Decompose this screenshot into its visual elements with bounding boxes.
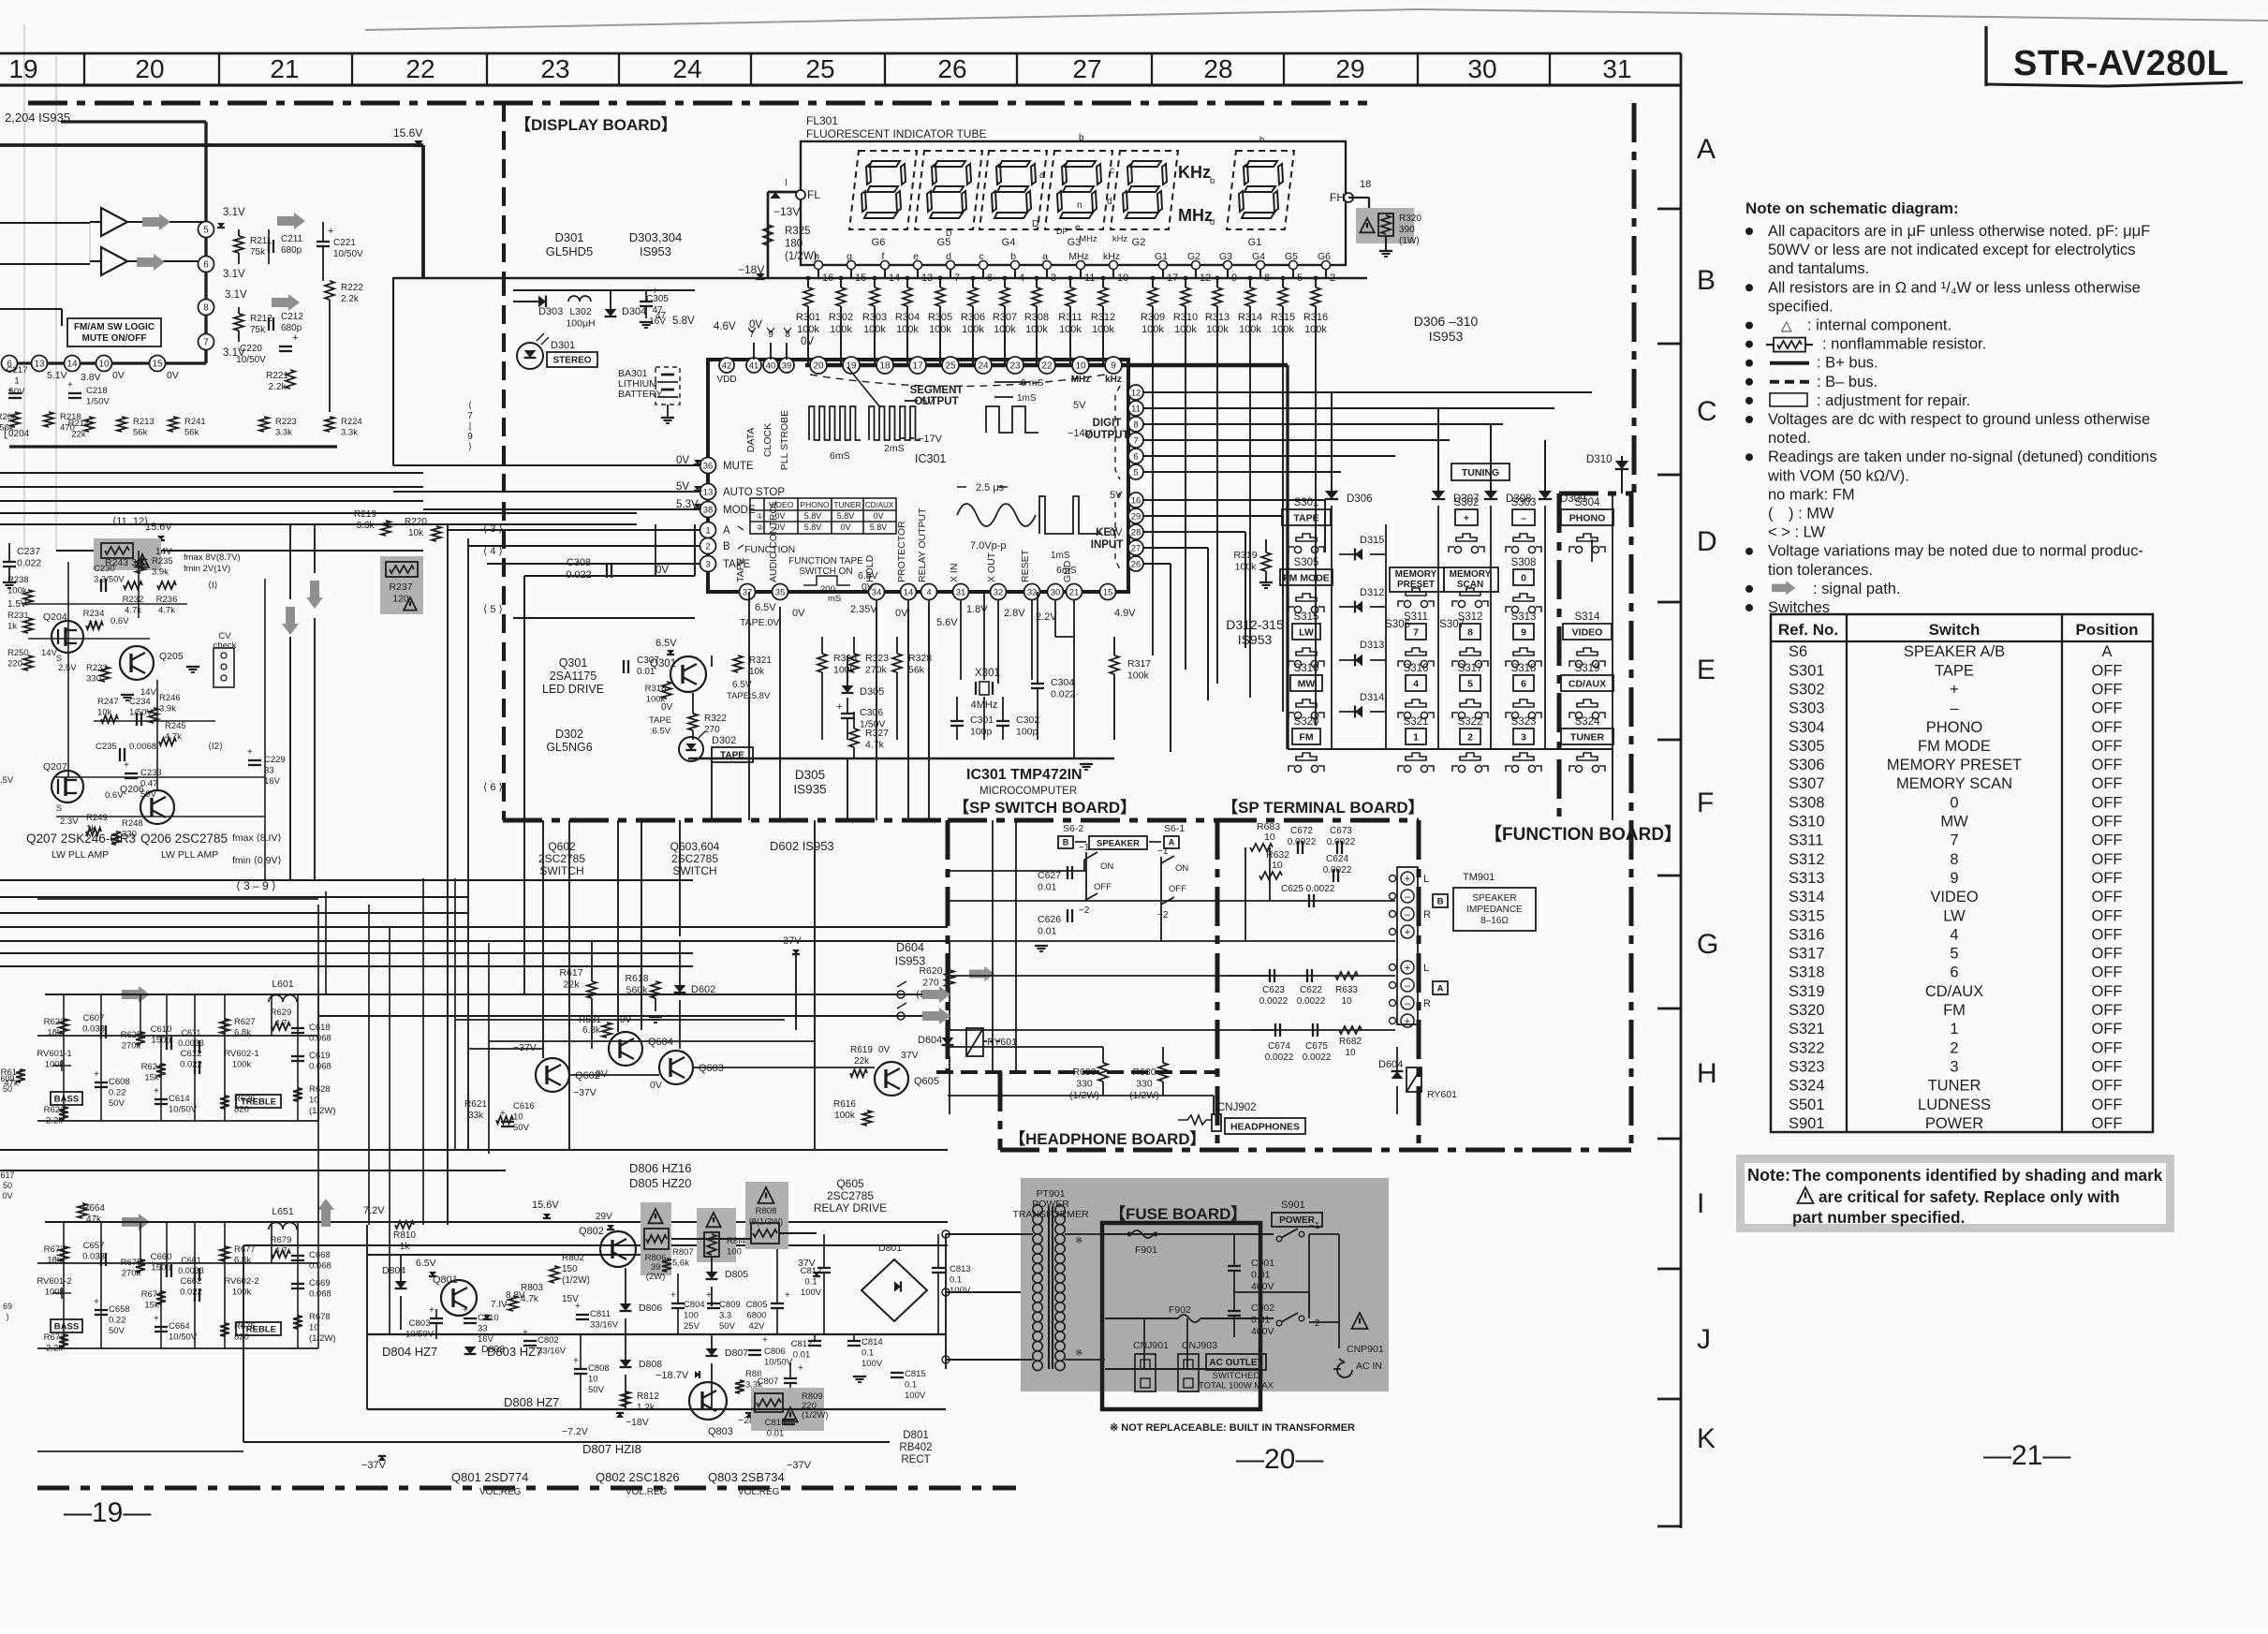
- capacitor C234: [129, 697, 153, 726]
- display tube FL301 box: [801, 141, 1346, 265]
- svg-text:I: I: [1697, 1188, 1704, 1219]
- svg-text:S308: S308: [1511, 557, 1537, 568]
- svg-text:AC OUTLET: AC OUTLET: [1209, 1358, 1262, 1368]
- resistor R250: [7, 648, 157, 700]
- svg-text:fmin ⟨0.9V⟩: fmin ⟨0.9V⟩: [232, 855, 282, 866]
- node label -18.7V: [655, 1370, 700, 1381]
- svg-text:12: 12: [1131, 388, 1141, 398]
- svg-text:0.01: 0.01: [767, 1429, 785, 1439]
- capacitor C806: [748, 1335, 793, 1368]
- node label MHz: [1178, 206, 1213, 225]
- svg-text:9: 9: [1521, 626, 1526, 638]
- svg-text:D301: D301: [554, 230, 583, 244]
- svg-text:MICROCOMPUTER: MICROCOMPUTER: [979, 786, 1077, 797]
- svg-text:10/50V: 10/50V: [169, 1105, 198, 1115]
- svg-text:27: 27: [1072, 54, 1101, 83]
- node label function board: [1484, 823, 1682, 845]
- svg-text:18: 18: [1360, 179, 1371, 190]
- svg-text:OFF: OFF: [2092, 757, 2123, 773]
- capacitor C218: [67, 380, 110, 407]
- svg-text:C658: C658: [109, 1304, 130, 1315]
- svg-text:23: 23: [1009, 361, 1021, 372]
- svg-text:D303: D303: [538, 306, 563, 317]
- svg-text:D801: D801: [903, 1430, 929, 1441]
- capacitor C623: [1259, 969, 1289, 1007]
- capacitor C812: [801, 1234, 831, 1334]
- switch S311: [1398, 611, 1434, 668]
- svg-text:0.1: 0.1: [950, 1275, 962, 1286]
- svg-text:+: +: [463, 1305, 468, 1316]
- resistor R211: [234, 229, 272, 264]
- svg-text:S321: S321: [1404, 716, 1429, 728]
- switch S304: [1561, 497, 1613, 553]
- svg-text:D306 –310: D306 –310: [1414, 314, 1479, 329]
- capacitor C817: [791, 1334, 821, 1361]
- svg-text:19: 19: [846, 361, 857, 372]
- svg-text:5: 5: [1467, 678, 1473, 689]
- svg-text:220: 220: [7, 659, 22, 670]
- svg-text:GL5NG6: GL5NG6: [546, 741, 592, 754]
- svg-text:FH: FH: [1330, 191, 1345, 204]
- svg-text:C230: C230: [94, 564, 115, 574]
- switch S306: [1385, 588, 1434, 630]
- svg-text:13: 13: [703, 487, 714, 497]
- capacitor C808: [573, 1334, 610, 1409]
- svg-text:S305: S305: [1294, 557, 1319, 568]
- svg-text:fmin 2V(1V): fmin 2V(1V): [184, 564, 230, 574]
- svg-text:L: L: [1423, 874, 1429, 885]
- svg-text:Q602: Q602: [548, 840, 576, 853]
- svg-text:R624: R624: [141, 1062, 163, 1072]
- svg-text:C805: C805: [746, 1300, 768, 1310]
- svg-text:100V: 100V: [801, 1288, 822, 1298]
- svg-text:OFF: OFF: [2092, 814, 2123, 831]
- svg-text:10: 10: [309, 1323, 319, 1333]
- svg-text:5,6k: 5,6k: [672, 1259, 689, 1269]
- svg-text:CNP901: CNP901: [1347, 1344, 1384, 1355]
- svg-text:−37V: −37V: [361, 1460, 387, 1471]
- svg-text:R8II: R8II: [745, 1369, 761, 1379]
- resistor R630: [1129, 1047, 1168, 1101]
- svg-text:50V: 50V: [719, 1321, 736, 1332]
- diode D304: [605, 290, 647, 317]
- svg-text:1k: 1k: [400, 1242, 411, 1252]
- svg-text:S305: S305: [1789, 738, 1825, 755]
- svg-text:R623: R623: [44, 1017, 66, 1027]
- svg-text:FL: FL: [807, 188, 820, 201]
- capacitor C805: [746, 1249, 790, 1334]
- svg-text:VDD: VDD: [716, 375, 736, 385]
- svg-text:+: +: [785, 1290, 790, 1301]
- svg-text:D315: D315: [1360, 535, 1384, 546]
- svg-text:D: D: [946, 228, 952, 238]
- svg-text:RV601-1: RV601-1: [37, 1049, 71, 1059]
- svg-text:C804: C804: [684, 1300, 705, 1310]
- node label 11 chevron: [208, 581, 218, 591]
- svg-text:–: –: [1405, 980, 1411, 992]
- svg-text:C812: C812: [801, 1266, 822, 1276]
- svg-text:0.1: 0.1: [804, 1277, 817, 1288]
- svg-text:S312: S312: [1458, 611, 1483, 623]
- svg-text:820: 820: [234, 1105, 249, 1115]
- capacitor C809: [706, 1290, 741, 1332]
- svg-text:6.5V: 6.5V: [755, 602, 776, 613]
- svg-text:41: 41: [749, 361, 759, 371]
- svg-text:R247: R247: [97, 697, 119, 707]
- capacitor C301: [950, 697, 994, 740]
- svg-text:9: 9: [1111, 361, 1116, 372]
- svg-text:−2: −2: [1157, 910, 1169, 920]
- svg-text:28: 28: [1131, 527, 1141, 537]
- svg-text:50V: 50V: [109, 1098, 125, 1109]
- svg-text:C623: C623: [1262, 985, 1285, 995]
- svg-text:C235: C235: [96, 742, 117, 752]
- svg-text:R313: R313: [1205, 312, 1230, 323]
- signal arrow up: [317, 1199, 334, 1227]
- svg-text:Q802: Q802: [579, 1226, 604, 1237]
- svg-text:C660: C660: [151, 1252, 172, 1262]
- svg-text:50: 50: [3, 1181, 12, 1190]
- node label fmax2: [232, 832, 282, 866]
- svg-text:1/50V: 1/50V: [86, 397, 110, 407]
- svg-text:TUNER: TUNER: [833, 500, 861, 509]
- svg-text:2.8V: 2.8V: [1004, 608, 1025, 619]
- svg-text:kHz: kHz: [1103, 251, 1120, 262]
- svg-text:Position: Position: [2075, 621, 2138, 639]
- svg-text:1k: 1k: [7, 622, 17, 632]
- svg-text:23: 23: [540, 54, 569, 83]
- svg-text:0V: 0V: [167, 370, 179, 381]
- node label 12 chevron: [208, 742, 223, 752]
- svg-text:h: h: [814, 251, 819, 262]
- svg-text:−17V: −17V: [918, 434, 943, 445]
- svg-text:4.6V: 4.6V: [714, 321, 736, 332]
- svg-text:100k: 100k: [232, 1288, 252, 1298]
- svg-text:C674: C674: [1268, 1041, 1290, 1052]
- svg-text:C220: C220: [240, 344, 262, 354]
- svg-text:C308: C308: [567, 557, 591, 568]
- signal arrow down2: [306, 581, 323, 609]
- svg-text:S311: S311: [1404, 611, 1428, 623]
- svg-text:(1/2W): (1/2W): [562, 1275, 590, 1286]
- svg-text:MEMORY PRESET: MEMORY PRESET: [1887, 757, 2022, 773]
- svg-text:R316: R316: [1303, 312, 1328, 323]
- svg-text:S6: S6: [1789, 643, 1807, 660]
- svg-text:2.35V: 2.35V: [850, 604, 877, 615]
- svg-text:15: 15: [1103, 587, 1113, 597]
- svg-text:10k: 10k: [408, 528, 424, 538]
- resistor R621: [464, 1099, 513, 1124]
- svg-text:R320: R320: [1399, 213, 1421, 224]
- svg-text:AC IN: AC IN: [1356, 1361, 1382, 1372]
- svg-text:18: 18: [879, 361, 891, 372]
- svg-text:24: 24: [978, 361, 989, 372]
- switch S315: [1289, 611, 1324, 668]
- op-amp IC301 digit output pins: [1115, 385, 1143, 479]
- svg-text:D305: D305: [860, 686, 884, 698]
- node label PT901: [1012, 1188, 1089, 1220]
- svg-text:39: 39: [782, 361, 792, 371]
- wire display board bottom-left border: [502, 277, 506, 820]
- wire mid buses: [0, 880, 948, 966]
- fuse F901: [1127, 1230, 1158, 1256]
- svg-text:+: +: [670, 1290, 676, 1301]
- op-amp IC301 segment pins: [805, 357, 1288, 749]
- svg-text:C237: C237: [17, 546, 40, 557]
- svg-text:: signal path.: : signal path.: [1813, 581, 1901, 597]
- display tube pins: [814, 251, 1335, 284]
- resistor R632: [1259, 849, 1289, 879]
- resistor R234: [83, 609, 130, 630]
- svg-text:SWITCHED: SWITCHED: [1213, 1371, 1260, 1381]
- svg-text:R630: R630: [1132, 1067, 1156, 1078]
- svg-text:S319: S319: [1575, 663, 1600, 674]
- svg-text:e: e: [913, 251, 919, 262]
- svg-text:R214: R214: [68, 419, 90, 429]
- svg-text:33k: 33k: [468, 1111, 484, 1121]
- diode D315: [1339, 535, 1386, 560]
- switch S312: [1452, 611, 1488, 668]
- svg-text:C813: C813: [950, 1264, 971, 1274]
- node label 3-9: [236, 879, 276, 892]
- capacitor C902: [1228, 1292, 1274, 1337]
- svg-text:R220: R220: [405, 517, 427, 527]
- svg-text:R311: R311: [1058, 312, 1082, 323]
- wire fuse board box: [1102, 1223, 1260, 1409]
- wire transformer links: [942, 1230, 1021, 1363]
- svg-text:C211: C211: [281, 234, 303, 244]
- svg-text:STEREO: STEREO: [552, 356, 591, 366]
- svg-text:9: 9: [467, 432, 473, 442]
- svg-text:S323: S323: [1511, 716, 1537, 728]
- svg-text:14: 14: [904, 587, 914, 597]
- svg-text:+: +: [1405, 963, 1410, 974]
- svg-text:7: 7: [1413, 626, 1419, 638]
- waveform X out sine: [957, 482, 1036, 552]
- svg-text:+: +: [7, 386, 13, 396]
- svg-text:R231: R231: [7, 611, 29, 621]
- wire psu mid bus: [367, 1233, 946, 1334]
- svg-text:10/50V: 10/50V: [333, 249, 363, 259]
- svg-text:4.7k: 4.7k: [865, 740, 885, 751]
- svg-text:0.22: 0.22: [109, 1088, 126, 1098]
- svg-text:no mark: FM: no mark: FM: [1768, 486, 1855, 503]
- resistor R664: [78, 1203, 105, 1225]
- capacitor C627: [1038, 866, 1072, 893]
- capacitor C816: [765, 1418, 795, 1439]
- svg-text:D304: D304: [622, 306, 646, 317]
- svg-text:R812: R812: [637, 1391, 659, 1402]
- node grid ruler: [0, 53, 1681, 85]
- svg-text:【DISPLAY BOARD】: 【DISPLAY BOARD】: [515, 115, 677, 134]
- svg-text:※ NOT REPLACEABLE: BUILT IN TR: ※ NOT REPLACEABLE: BUILT IN TRANSFORMER: [1110, 1422, 1355, 1434]
- svg-text:R677: R677: [234, 1244, 256, 1255]
- diode D604b: [918, 1035, 953, 1046]
- resistor R326: [817, 637, 857, 740]
- svg-text:R235: R235: [152, 556, 173, 567]
- transistor Q605: [875, 1062, 939, 1096]
- svg-text:PRESET: PRESET: [1397, 580, 1435, 590]
- svg-text:+: +: [523, 1328, 528, 1338]
- svg-text:R307: R307: [993, 312, 1017, 323]
- node left edge labels: [0, 1074, 14, 1321]
- capacitor C810: [463, 1305, 499, 1345]
- svg-text:RY601: RY601: [1427, 1089, 1457, 1100]
- svg-text:5.1V: 5.1V: [47, 370, 67, 381]
- wire key matrix rows: [1143, 500, 1325, 752]
- svg-text:⟨ 5 ⟩: ⟨ 5 ⟩: [483, 604, 503, 615]
- svg-text:−13V: −13V: [773, 205, 800, 218]
- svg-text:R309: R309: [1141, 312, 1165, 323]
- svg-text:100p: 100p: [1016, 727, 1038, 738]
- svg-text:0V: 0V: [801, 336, 814, 347]
- svg-text:MW: MW: [1298, 678, 1316, 689]
- node label FM/AM box: [67, 318, 161, 346]
- svg-text:R629: R629: [271, 1008, 292, 1018]
- svg-text:: nonflammable resistor.: : nonflammable resistor.: [1822, 336, 1986, 353]
- svg-text:S318: S318: [1511, 663, 1537, 674]
- svg-text:KHz: KHz: [1178, 163, 1211, 182]
- svg-text:10: 10: [1341, 996, 1352, 1007]
- svg-text:CNJ902: CNJ902: [1217, 1102, 1257, 1113]
- wire lower speaker lines: [0, 1150, 948, 1245]
- svg-text:+: +: [429, 1305, 434, 1316]
- svg-text:L302: L302: [569, 306, 592, 317]
- svg-text:4.7: 4.7: [274, 1246, 287, 1257]
- svg-text:2mS: 2mS: [884, 443, 905, 454]
- op-amp IC301 left pins: [676, 455, 785, 572]
- svg-text:R633: R633: [1335, 985, 1358, 995]
- resistor R802: [550, 1253, 590, 1286]
- svg-text:−7.2V: −7.2V: [562, 1426, 588, 1437]
- capacitor C229: [247, 747, 286, 787]
- svg-text:15.6V: 15.6V: [393, 126, 422, 140]
- display digit G3: [1045, 151, 1112, 229]
- signal arrow 2: [137, 254, 165, 271]
- capacitor C212: [269, 312, 303, 333]
- svg-text:C675: C675: [1305, 1041, 1328, 1052]
- capacitor C304: [1031, 592, 1075, 740]
- svg-text:SPEAKER: SPEAKER: [1097, 838, 1140, 848]
- resistor R224: [325, 417, 362, 438]
- svg-text:C816: C816: [765, 1418, 787, 1428]
- svg-text:OFF: OFF: [2092, 1039, 2123, 1056]
- wire display left wires: [513, 524, 695, 820]
- svg-text:G5: G5: [1285, 251, 1298, 262]
- wire sp terminal wires: [1227, 847, 1395, 1030]
- svg-text:Q301: Q301: [559, 656, 588, 670]
- svg-text:PHONO: PHONO: [1569, 512, 1606, 523]
- svg-text:0V: 0V: [112, 370, 125, 381]
- svg-text:MUTE: MUTE: [723, 461, 754, 472]
- svg-text:A: A: [723, 525, 730, 537]
- svg-text:0.01: 0.01: [1038, 926, 1057, 937]
- svg-text:100k: 100k: [797, 324, 819, 335]
- svg-text:S319: S319: [1789, 983, 1825, 1000]
- svg-text:D306: D306: [1347, 493, 1373, 505]
- svg-text:C817: C817: [791, 1339, 813, 1349]
- switch S301: [1282, 497, 1331, 553]
- svg-text:7: 7: [1133, 435, 1138, 446]
- svg-text:RELAY OUTPUT: RELAY OUTPUT: [917, 508, 928, 582]
- svg-text:15V: 15V: [562, 1294, 579, 1304]
- svg-text:3.1V: 3.1V: [223, 269, 245, 280]
- svg-text:Voltage variations may be note: Voltage variations may be noted due to n…: [1768, 543, 2143, 560]
- svg-text:3.9k: 3.9k: [152, 567, 169, 578]
- svg-text:R618: R618: [625, 973, 648, 984]
- svg-text:R808: R808: [756, 1206, 777, 1216]
- svg-text:56k: 56k: [184, 428, 199, 438]
- svg-text:9: 9: [1950, 870, 1958, 887]
- svg-text:56k: 56k: [908, 665, 925, 676]
- svg-text:100k: 100k: [45, 1060, 65, 1070]
- svg-text:f: f: [1047, 194, 1050, 204]
- switch position table: [1771, 614, 2153, 1132]
- svg-text:noted.: noted.: [1768, 430, 1811, 447]
- signal arrow 4: [272, 294, 300, 311]
- svg-text:4: 4: [1413, 678, 1419, 689]
- resistor R618: [625, 973, 662, 1023]
- node pin 5: [199, 207, 245, 238]
- svg-text:R803: R803: [521, 1283, 543, 1293]
- svg-text:d: d: [1107, 197, 1112, 207]
- node label 37V psu: [798, 1258, 820, 1276]
- svg-text:6.5V: 6.5V: [416, 1258, 436, 1269]
- svg-text:The components identified by s: The components identified by shading and…: [1792, 1166, 2163, 1185]
- svg-text:D806: D806: [639, 1303, 662, 1314]
- svg-text:50: 50: [3, 1084, 12, 1094]
- capacitor C211: [269, 229, 303, 264]
- svg-text:17: 17: [912, 361, 923, 372]
- svg-text:S302: S302: [1454, 497, 1480, 508]
- svg-text:OFF: OFF: [2092, 775, 2123, 792]
- svg-text:25: 25: [945, 361, 956, 372]
- svg-text:8: 8: [203, 303, 209, 314]
- node label D604 type: [895, 941, 926, 968]
- node label D801 type: [899, 1430, 932, 1465]
- svg-text:100k: 100k: [962, 324, 984, 335]
- switch S307: [1439, 588, 1488, 630]
- resistor R810: [393, 1221, 416, 1252]
- svg-text:⟨I⟩: ⟨I⟩: [208, 581, 218, 591]
- svg-text:−2: −2: [1079, 905, 1090, 916]
- svg-text:D: D: [1697, 526, 1717, 557]
- node page number 20: [1236, 1444, 1323, 1475]
- svg-text:D305: D305: [795, 768, 825, 782]
- svg-text:SPEAKER A/B: SPEAKER A/B: [1904, 643, 2005, 660]
- svg-text:FM MODE: FM MODE: [1918, 738, 1991, 755]
- svg-text:56k: 56k: [133, 428, 148, 438]
- svg-text:S322: S322: [1789, 1039, 1825, 1056]
- diode D806: [620, 1268, 663, 1334]
- svg-text:−37V: −37V: [787, 1460, 812, 1471]
- transistor Q801: [433, 1274, 477, 1316]
- svg-text:D803 HZ7: D803 HZ7: [487, 1345, 542, 1359]
- svg-text:S315: S315: [1294, 611, 1319, 623]
- capacitor C308: [566, 557, 611, 581]
- capacitor C221: [317, 222, 363, 281]
- svg-text:L601: L601: [272, 979, 294, 990]
- svg-text:100μH: 100μH: [566, 318, 595, 330]
- svg-text:15k: 15k: [144, 1301, 159, 1311]
- svg-text:C610: C610: [151, 1024, 172, 1035]
- svg-text:50V: 50V: [588, 1385, 605, 1395]
- node label D602 type: [770, 839, 834, 853]
- diode D313: [1339, 640, 1386, 666]
- svg-text:MHz: MHz: [1071, 375, 1091, 385]
- svg-text:BASS: BASS: [54, 1321, 79, 1332]
- svg-text:SPEAKER: SPEAKER: [1472, 893, 1516, 904]
